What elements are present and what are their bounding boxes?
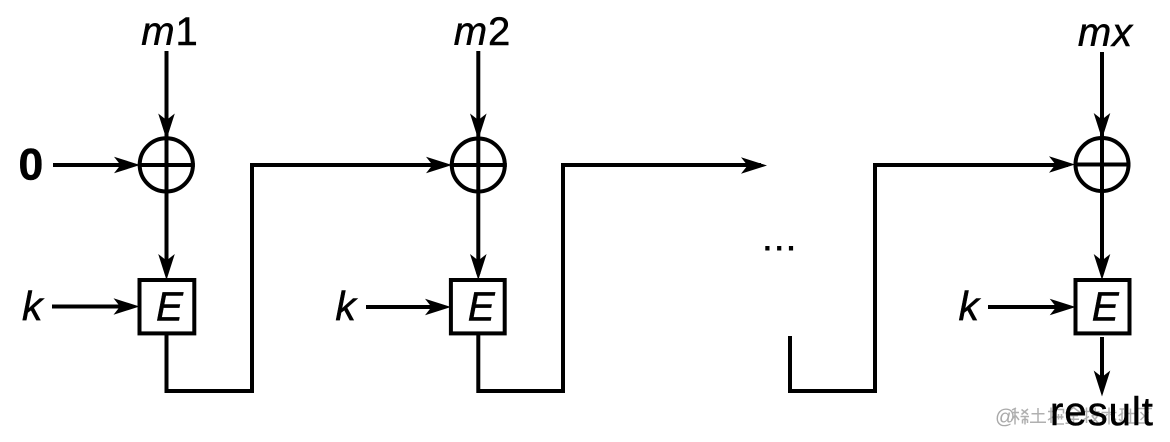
wire k3 to E3: [988, 305, 1069, 309]
arrowhead loop2 toward ellipsis: [741, 157, 767, 174]
svg-text:mx: mx: [1078, 11, 1134, 55]
ellipsis dots: [765, 246, 793, 251]
arrowhead 0 into XOR1: [114, 157, 140, 174]
XOR2 cross horizontal: [450, 163, 507, 167]
XOR circle U2: [452, 139, 505, 192]
arrowhead k3 into E3: [1050, 299, 1076, 316]
arrowhead mx into XOR3: [1094, 113, 1111, 139]
svg-text:k: k: [958, 283, 981, 329]
watermark @稀土掘金技术社区 (approximated): [995, 407, 1153, 429]
arrowhead k2 into E2: [425, 299, 451, 316]
svg-text:result: result: [1050, 390, 1154, 434]
arrowhead m1 into XOR1: [158, 114, 175, 140]
XOR3 cross horizontal: [1074, 163, 1131, 167]
wire m2 to XOR2 and XOR2 to E2: [476, 51, 480, 274]
wm 技: [1083, 408, 1090, 424]
wire E3 to result: [1100, 337, 1104, 390]
arrowhead stub into XOR3: [1049, 156, 1075, 173]
arrowhead m2 into XOR2: [470, 114, 487, 140]
arrowhead XOR1 into E1: [158, 254, 175, 280]
XOR1 cross horizontal: [138, 163, 195, 167]
arrowhead XOR2 into E2: [470, 254, 487, 280]
block E3: [1076, 280, 1130, 333]
wm 术: [1102, 408, 1117, 425]
wire m1 to XOR1 and XOR1 to E1 (vertical through circle): [165, 51, 169, 274]
svg-text:E: E: [1092, 284, 1120, 330]
svg-text:k: k: [335, 283, 358, 329]
wm 金: [1066, 408, 1082, 424]
XOR circle U1: [140, 138, 193, 191]
svg-text:0: 0: [19, 141, 44, 190]
arrowhead XOR3 into E3: [1094, 254, 1111, 280]
svg-text:E: E: [468, 284, 496, 330]
wire k2 to E2: [366, 305, 444, 309]
wm 掘: [1048, 408, 1054, 424]
arrowhead E3 output to result: [1094, 371, 1111, 397]
svg-text:m1: m1: [141, 10, 199, 54]
wm 区: [1138, 409, 1153, 424]
arrowhead k1 into E1: [114, 298, 140, 315]
wire stub from ellipsis to XOR3: [790, 165, 1068, 391]
wire loop E1 output to XOR2: [167, 165, 447, 391]
wire 0 to XOR1: [53, 163, 133, 167]
wire mx to XOR3 and XOR3 to E3: [1100, 52, 1104, 274]
svg-text:m2: m2: [454, 10, 512, 54]
svg-text:k: k: [22, 283, 45, 329]
arrowhead loop1 into XOR2: [426, 157, 452, 174]
wm 社: [1119, 409, 1125, 424]
block E1: [140, 280, 195, 333]
svg-text:E: E: [156, 284, 184, 330]
wm 土: [1030, 408, 1046, 422]
wire k1 to E1: [52, 305, 133, 309]
wire loop E2 output toward ellipsis: [478, 165, 761, 391]
XOR circle U3: [1076, 138, 1129, 191]
block E2: [451, 280, 505, 333]
wm 稀: [1012, 408, 1020, 425]
